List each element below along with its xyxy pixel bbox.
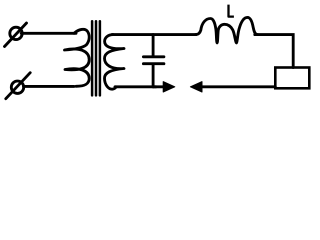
wire secondary bottom to capacitor bottom xyxy=(115,85,156,88)
transformer core line 1 xyxy=(91,21,94,95)
capacitor C1 stem top xyxy=(152,35,155,56)
label L xyxy=(229,5,234,17)
load box xyxy=(275,68,309,89)
inductor L winding xyxy=(196,17,258,43)
phase terminal P2 slash xyxy=(6,73,30,99)
transformer core line 2 xyxy=(95,21,98,95)
wire box left to left arrow xyxy=(201,85,275,88)
arrowhead pointing right xyxy=(163,82,175,92)
wire secondary top to capacitor and inductor xyxy=(112,33,196,36)
wire P1 to primary top xyxy=(21,32,76,35)
arrowhead pointing left xyxy=(190,82,202,92)
transformer T1 secondary winding xyxy=(104,35,124,90)
capacitor C1 stem bottom xyxy=(152,65,155,87)
capacitor C1 bottom plate xyxy=(143,62,164,65)
capacitor C1 top plate xyxy=(143,55,164,58)
phase terminal P1 slash xyxy=(5,23,27,47)
phase terminal P2 circle xyxy=(11,81,23,93)
wire to right arrow xyxy=(153,85,165,88)
wire P2 to primary bottom xyxy=(24,85,75,88)
transformer T1 primary winding xyxy=(65,29,90,86)
phase terminal P1 circle xyxy=(10,27,22,39)
wire inductor to top-right corner and down to box xyxy=(255,35,293,68)
transformer core line 3 xyxy=(99,21,102,95)
